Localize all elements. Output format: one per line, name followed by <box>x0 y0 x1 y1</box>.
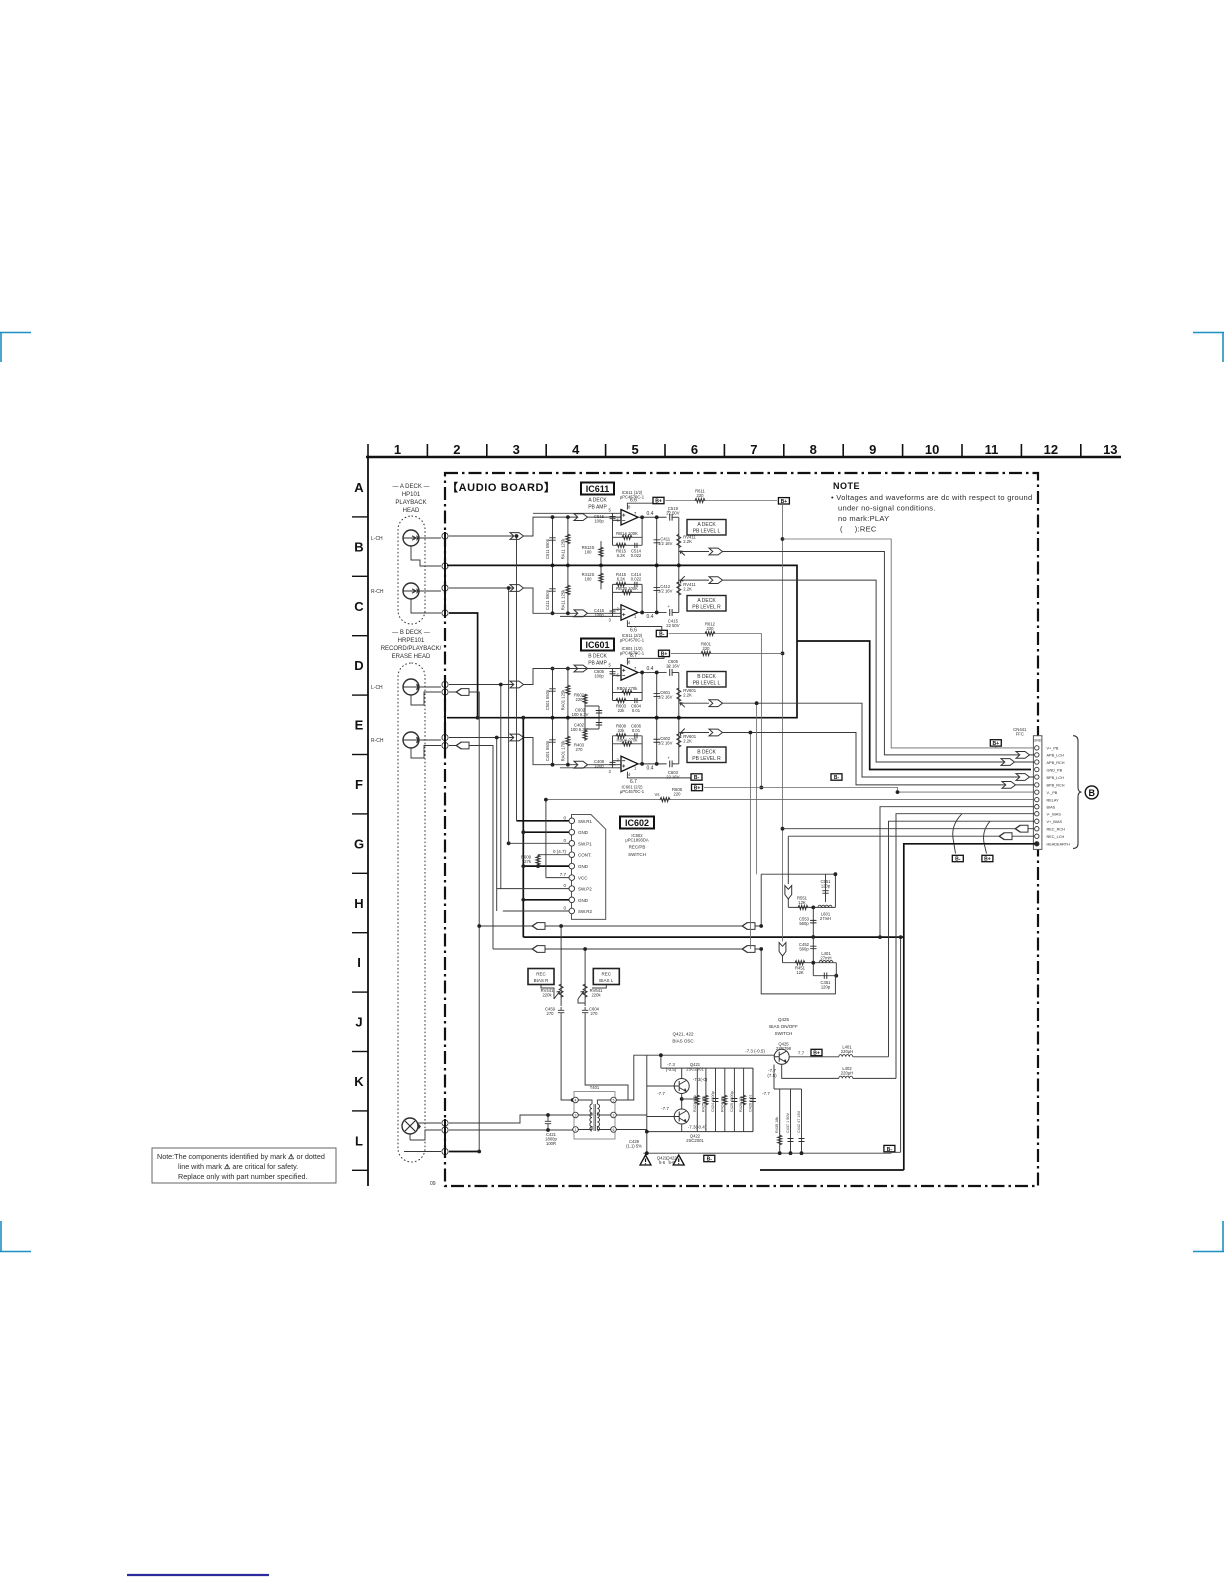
signal flag input L <box>510 533 524 540</box>
IC602 pin GND <box>569 897 575 903</box>
svg-text:Replace only with part number: Replace only with part number specified. <box>178 1172 307 1181</box>
svg-text:RB04 270k: RB04 270k <box>617 686 639 691</box>
wire erase line to T401 pin3 <box>449 1115 573 1123</box>
capacitor C415 across inputs <box>610 611 616 613</box>
wire Q425 collector to L402 <box>782 1065 896 1079</box>
svg-text:12K: 12K <box>798 900 806 905</box>
svg-text:22 16V: 22 16V <box>666 664 679 669</box>
svg-text:B: B <box>1088 788 1095 798</box>
wire B-deck ground bus <box>447 641 797 718</box>
svg-text:3: 3 <box>609 769 612 774</box>
B deck head dotted stadium <box>398 663 425 1162</box>
svg-text:GND: GND <box>578 864 589 869</box>
svg-text:270: 270 <box>576 747 584 752</box>
svg-text:PB AMP: PB AMP <box>588 661 607 667</box>
power box B- center <box>704 1155 715 1162</box>
svg-text:PB LEVEL L: PB LEVEL L <box>693 681 721 687</box>
svg-text:G: G <box>354 836 364 851</box>
IC602 pin SW.P2 <box>569 886 575 892</box>
svg-text:10: 10 <box>925 442 939 457</box>
capacitor C425 4800p <box>733 1068 735 1132</box>
svg-text:100p: 100p <box>594 612 604 617</box>
svg-text:R-CH: R-CH <box>371 589 384 595</box>
wire SW.P2 tap <box>500 685 502 889</box>
svg-text:SWITCH: SWITCH <box>628 852 646 857</box>
resistor R425 18k <box>705 1068 707 1132</box>
playback head L circle <box>403 530 419 546</box>
resistor R424 18k <box>724 1068 726 1132</box>
power box B+ osc <box>811 1049 822 1056</box>
svg-text:220μH: 220μH <box>841 1049 853 1054</box>
capacitor C605 coupling <box>670 669 672 676</box>
svg-text:RA01 125k: RA01 125k <box>560 689 565 711</box>
erase head circle with X <box>402 1118 421 1134</box>
T401 pin 5 <box>611 1097 617 1103</box>
svg-text:22k: 22k <box>618 728 626 733</box>
wire B+ jog to V+ riser <box>783 539 1035 748</box>
wire Q422 connections <box>647 1099 682 1132</box>
svg-text:GND: GND <box>578 830 589 835</box>
svg-text:PB LEVEL R: PB LEVEL R <box>692 605 721 611</box>
svg-text:(7.5): (7.5) <box>767 1073 777 1078</box>
svg-text:27mH: 27mH <box>820 956 831 961</box>
wire SW.R2 tap <box>496 738 498 912</box>
svg-text:μPC1893DA: μPC1893DA <box>625 838 649 843</box>
svg-text:220: 220 <box>674 792 682 797</box>
svg-text:5: 5 <box>613 1099 615 1103</box>
wire REC row L (y=926) <box>479 925 761 927</box>
wire LC2 frame <box>761 949 836 994</box>
circled B <box>1085 786 1098 799</box>
svg-text:C411 550p: C411 550p <box>545 589 550 610</box>
wire ground to connector GND_PB <box>797 641 1031 770</box>
svg-text:L-CH: L-CH <box>371 685 383 691</box>
resistor R612S 10K <box>600 541 602 565</box>
signal flag REC L row b <box>742 923 755 930</box>
svg-text:0: 0 <box>563 815 566 820</box>
svg-text:100p: 100p <box>594 518 604 523</box>
svg-text:REC/PB: REC/PB <box>629 845 646 850</box>
svg-text:3: 3 <box>575 1114 577 1118</box>
svg-text:B DECK: B DECK <box>697 674 716 680</box>
svg-text:— B DECK —: — B DECK — <box>392 630 430 636</box>
label box REC BIAS R <box>528 969 554 985</box>
svg-text:220: 220 <box>703 646 711 651</box>
connector pin GND_PB <box>1035 767 1039 771</box>
capacitor C411 550p <box>552 565 554 613</box>
resistor R612 220 <box>705 631 715 635</box>
wire LC2 inductor line <box>783 956 837 963</box>
svg-text:HP101: HP101 <box>402 492 421 498</box>
resistor RB1B 100K feedback <box>613 584 643 612</box>
svg-text:0: 0 <box>563 883 566 888</box>
IC601 label <box>581 639 614 651</box>
svg-text:4: 4 <box>628 772 631 777</box>
svg-text:9: 9 <box>869 442 876 457</box>
connector pin REC_RCH <box>1035 827 1039 831</box>
wire input L from pin 1 <box>449 517 621 536</box>
svg-text:B DECK: B DECK <box>697 750 716 756</box>
svg-text:PB LEVEL L: PB LEVEL L <box>693 529 721 535</box>
svg-text:220μH: 220μH <box>841 1071 853 1076</box>
svg-text:120p: 120p <box>821 985 831 990</box>
wire APB_RCH <box>723 580 1035 762</box>
wire T401 pin5 to osc rail <box>617 1055 647 1100</box>
signal flag REC R row a <box>532 946 545 953</box>
svg-text:BIAS: BIAS <box>1047 806 1056 810</box>
resistor R611 220 <box>695 498 705 502</box>
bottom blue rule <box>127 1574 269 1576</box>
svg-text:3: 3 <box>513 442 520 457</box>
svg-text:BIAS OSC: BIAS OSC <box>672 1039 694 1044</box>
power box <box>691 774 702 781</box>
resistor R615 / capacitor C514 series feedback <box>616 543 626 547</box>
signal flag <box>709 700 723 707</box>
svg-text:6.2K: 6.2K <box>617 576 626 581</box>
svg-text:1: 1 <box>634 765 637 770</box>
IC602 body <box>572 815 606 920</box>
svg-text:100: 100 <box>585 550 593 555</box>
wire osc left rail <box>646 1055 648 1153</box>
wire B- rail drop <box>669 634 762 788</box>
wire pin6 riser <box>449 692 479 1152</box>
svg-text:09: 09 <box>430 1181 436 1187</box>
brace <box>1073 736 1082 849</box>
op-amp IC611a <box>621 510 638 526</box>
flag down LC1 feed (REC_LCH) <box>785 886 792 900</box>
svg-text:1/2 16V: 1/2 16V <box>658 588 673 593</box>
svg-text:no mark:PLAY: no mark:PLAY <box>838 514 889 523</box>
capacitor C602 output to ground <box>656 718 658 764</box>
svg-text:BIAS L: BIAS L <box>599 978 614 983</box>
board edge pin circles <box>442 533 448 1155</box>
svg-text:RELAY: RELAY <box>1047 798 1060 802</box>
svg-text:7.7: 7.7 <box>798 1051 805 1056</box>
resistor R603 / capacitor C604 series feedback <box>616 698 626 702</box>
resistor R551 12k <box>798 905 808 909</box>
resistor R608 / capacitor C606 series feedback <box>616 734 626 738</box>
svg-text:IC601: IC601 <box>585 640 609 650</box>
svg-text:BPB_LCH: BPB_LCH <box>1047 776 1065 780</box>
wire Q425 emitter to L401 <box>789 1056 888 1058</box>
svg-text:GND: GND <box>578 898 589 903</box>
svg-text:C425 4800p: C425 4800p <box>730 1091 734 1112</box>
power box B- bottom right <box>884 1145 895 1152</box>
wire lower frame vertical <box>891 937 900 1152</box>
capacitor C412 output to ground <box>656 565 658 612</box>
resistor R435 18k <box>779 1089 781 1153</box>
capacitor C421 1800p <box>545 1118 551 1127</box>
svg-text:5: 5 <box>609 507 612 512</box>
T401 pin 2 <box>611 1112 617 1118</box>
resistor R601 220 <box>701 651 711 655</box>
wire SW.P1 tap <box>508 588 510 843</box>
wire power rail stub <box>627 620 661 633</box>
capacitor C605 across inputs <box>610 672 616 674</box>
power box B- flex <box>952 855 963 862</box>
svg-text:R425 18k: R425 18k <box>701 1096 705 1112</box>
svg-text:C442 47 16V: C442 47 16V <box>797 1110 801 1133</box>
svg-text:REC: REC <box>536 972 546 977</box>
capacitor C437 1 50V <box>790 1089 792 1153</box>
solid overlay on board edge between pins <box>444 532 446 1156</box>
corner mark top-right <box>1193 333 1224 363</box>
svg-text:8: 8 <box>628 504 631 509</box>
svg-text:3: 3 <box>609 617 612 622</box>
svg-text:220: 220 <box>576 697 584 702</box>
IC602 pin SW.P1 <box>569 841 575 847</box>
signal flag APB_RCH <box>1001 759 1015 766</box>
svg-text:RB1A 100K: RB1A 100K <box>616 531 638 536</box>
resistor R608 220 Vs <box>660 797 670 801</box>
svg-text:6: 6 <box>617 673 620 678</box>
signal flag input BR <box>510 734 524 741</box>
svg-text:7: 7 <box>750 442 757 457</box>
T401 pin 1 <box>573 1127 579 1133</box>
resistor R423 8.2k <box>696 1068 698 1132</box>
svg-text:RA11 125k: RA11 125k <box>560 589 565 610</box>
svg-text:7: 7 <box>634 511 637 516</box>
resistor R412S 10K <box>600 565 602 589</box>
power box B- on BPB_LCH <box>831 774 842 781</box>
svg-text:5: 5 <box>609 663 612 668</box>
capacitor C426 0.01 <box>752 1068 754 1132</box>
wire APB_LCH <box>723 552 1035 755</box>
svg-text:2.2K: 2.2K <box>683 738 692 743</box>
signal flag REC_LCH left <box>999 833 1012 840</box>
IC602 pin VCC <box>569 875 575 881</box>
wire osc inner rail top <box>661 1055 753 1068</box>
IC602 label box <box>620 817 654 829</box>
svg-text:Q421, 422: Q421, 422 <box>672 1032 694 1037</box>
svg-text:PB AMP: PB AMP <box>588 505 607 511</box>
IC611 label <box>581 483 614 495</box>
svg-text:100: 100 <box>585 577 593 582</box>
signal flag <box>709 729 723 736</box>
resistor R402 220 + capacitor C402 100 6.3V lower <box>585 718 599 741</box>
svg-text:6.2K: 6.2K <box>617 553 626 558</box>
svg-text:C426 0.01: C426 0.01 <box>748 1094 752 1112</box>
svg-text:A DECK: A DECK <box>697 598 716 604</box>
power box <box>659 650 670 657</box>
svg-text:560p: 560p <box>799 921 809 926</box>
resistor RB1A 100K feedback <box>613 517 643 545</box>
wire power rail stub <box>627 501 658 510</box>
wire power rail stub <box>627 653 664 664</box>
wire SW.R1 tap <box>516 536 518 821</box>
potentiometer RV601 <box>678 718 680 764</box>
potentiometer RV601 <box>678 672 680 717</box>
wire to level flag <box>679 551 709 553</box>
label box REC BIAS L <box>593 969 619 985</box>
wire T401 pin6 to rail <box>617 1129 647 1131</box>
svg-text:220k: 220k <box>591 993 601 998</box>
capacitor C603 coupling <box>670 760 672 767</box>
svg-text:6: 6 <box>617 517 620 522</box>
transistor Q421 <box>674 1079 689 1094</box>
connector pin APB_RCH <box>1035 760 1039 764</box>
connector pin BPB_RCH <box>1035 783 1039 787</box>
svg-text:R423 8.2k: R423 8.2k <box>693 1095 697 1112</box>
svg-text:CONT.: CONT. <box>578 853 592 858</box>
wire HEADEARTH heavy <box>760 844 1035 1170</box>
capacitor C411 output to ground <box>656 517 658 565</box>
svg-text:RA11 125k: RA11 125k <box>560 538 565 559</box>
svg-text:-7.7: -7.7 <box>762 1091 770 1096</box>
svg-text:SW.P2: SW.P2 <box>578 887 592 892</box>
svg-text:120p: 120p <box>821 884 831 889</box>
signal flag input R <box>510 585 524 592</box>
svg-text:C437 1 50V: C437 1 50V <box>786 1112 790 1133</box>
svg-text:560p: 560p <box>799 947 809 952</box>
svg-text:0.01: 0.01 <box>632 708 641 713</box>
svg-text:8: 8 <box>810 442 817 457</box>
potentiometer RV441 220k <box>560 926 562 1006</box>
svg-text:0.4: 0.4 <box>647 765 654 771</box>
A deck head dotted stadium <box>398 516 425 624</box>
wire REC_RCH <box>783 828 1035 830</box>
power box <box>656 630 667 637</box>
corner mark bottom-right <box>1193 1221 1224 1252</box>
svg-text:Q425: Q425 <box>778 1017 790 1022</box>
wire output 0.4 <box>638 671 667 673</box>
svg-text:REC_LCH: REC_LCH <box>1047 835 1065 839</box>
svg-text:2SC2001: 2SC2001 <box>686 1138 704 1143</box>
svg-text:0 (4.7): 0 (4.7) <box>553 849 567 854</box>
svg-text:• Voltages and waveforms are d: • Voltages and waveforms are dc with res… <box>831 493 1032 502</box>
playback head R circle <box>403 583 419 599</box>
resistor RA11 125k R-ch <box>567 565 569 613</box>
svg-text:R-CH: R-CH <box>371 738 384 744</box>
transistor Q425 <box>774 1049 789 1064</box>
svg-text:D: D <box>354 658 363 673</box>
wire A-deck ground bus <box>447 565 797 641</box>
connector pin V+_PB <box>1035 746 1039 750</box>
svg-text:RA01 170k: RA01 170k <box>560 740 565 762</box>
svg-text:220: 220 <box>697 493 705 498</box>
svg-text:12K: 12K <box>796 970 804 975</box>
svg-text:6: 6 <box>691 442 698 457</box>
capacitor C501 550p <box>552 669 554 718</box>
wire BPB-L to LC trap <box>756 703 758 874</box>
wire V+_BIAS with flex arc <box>984 821 990 853</box>
wire inputs IC611a <box>533 513 621 545</box>
svg-text:0.022: 0.022 <box>631 576 642 581</box>
svg-text:C: C <box>354 599 364 614</box>
svg-text:1: 1 <box>575 1128 577 1132</box>
svg-text:μPC4570C-1: μPC4570C-1 <box>620 638 645 643</box>
potentiometer RV411 <box>678 565 680 612</box>
wire inputs IC611b <box>560 584 621 616</box>
wire BPB-R to LC trap <box>749 733 751 950</box>
svg-text:GND: GND <box>1034 739 1042 743</box>
signal flag pin6 <box>456 689 469 696</box>
svg-text:8: 8 <box>628 660 631 665</box>
svg-text:4: 4 <box>575 1099 577 1103</box>
wire to level flag <box>679 702 709 704</box>
svg-text:R435 18k: R435 18k <box>775 1117 779 1133</box>
svg-text:2: 2 <box>613 1114 615 1118</box>
svg-text:SW.R1: SW.R1 <box>578 819 593 824</box>
connector pin APB_LCH <box>1035 753 1039 757</box>
svg-text:E: E <box>355 718 364 733</box>
svg-text:IC611: IC611 <box>586 484 610 494</box>
capacitor C451 120p <box>813 975 836 977</box>
signal flag APB_LCH <box>1016 752 1030 759</box>
svg-text:13: 13 <box>1103 442 1117 457</box>
wire BIAS riser <box>880 807 1034 937</box>
HEADEARTH junction dot <box>1035 842 1039 846</box>
svg-text:4: 4 <box>572 442 580 457</box>
svg-text:22 50V: 22 50V <box>666 511 679 516</box>
capacitor C401 550p <box>552 718 554 765</box>
wire osc top rail to Q425 <box>647 1054 774 1056</box>
svg-text:5-6: 5-6 <box>668 1160 675 1165</box>
svg-text:100 6.3V: 100 6.3V <box>572 712 589 717</box>
capacitor C415 coupling <box>670 609 672 616</box>
svg-text:-7.3 (-0.5): -7.3 (-0.5) <box>745 1049 765 1054</box>
rec/pb head L circle <box>403 679 419 695</box>
svg-text:100 6.3V: 100 6.3V <box>571 727 588 732</box>
svg-text:2.2K: 2.2K <box>683 539 692 544</box>
svg-text:+: + <box>667 604 670 609</box>
svg-text:6.7: 6.7 <box>630 653 637 659</box>
svg-text:27mH: 27mH <box>820 916 831 921</box>
capacitor C604 270 <box>582 1007 588 1016</box>
inductor L401 220uH <box>839 1055 853 1057</box>
svg-text:BIAS R: BIAS R <box>534 978 550 983</box>
svg-text:7: 7 <box>634 666 637 671</box>
potentiometer RV411 <box>678 517 680 565</box>
capacitor C452 560p <box>810 946 816 949</box>
inductor L401 27mH <box>819 961 833 963</box>
svg-text:RECORD/PLAYBACK/: RECORD/PLAYBACK/ <box>381 646 442 652</box>
capacitor C553 560p <box>812 907 814 937</box>
svg-text:+: + <box>667 755 670 760</box>
svg-text:1: 1 <box>394 442 401 457</box>
op-amp IC611b <box>621 605 638 621</box>
connector pin V-_PB <box>1035 790 1039 794</box>
resistor RA01 170k <box>567 718 569 765</box>
signal flag input L2 <box>574 514 588 521</box>
svg-text:VCC: VCC <box>578 876 588 881</box>
svg-text:270: 270 <box>591 1011 599 1016</box>
svg-text:220: 220 <box>707 626 715 631</box>
svg-text:REC: REC <box>602 972 612 977</box>
wire input R from pin 3 <box>449 588 621 616</box>
svg-text:7.7: 7.7 <box>560 872 567 877</box>
resistor R602 220 + capacitor C602 100 6.3V <box>585 694 599 718</box>
potentiometer RV641 220k <box>584 949 586 1006</box>
wire output 0.4 <box>638 516 667 518</box>
T401 pin 6 <box>611 1127 617 1133</box>
connector body <box>1033 736 1042 850</box>
label box A DECK PB LEVEL L <box>687 520 726 536</box>
svg-text:0: 0 <box>563 906 566 911</box>
corner mark top-left <box>0 333 31 363</box>
inductor L402 220uH <box>839 1076 853 1078</box>
label box B DECK PB LEVEL R <box>687 747 726 763</box>
signal flag BPB_LCH <box>1016 774 1030 781</box>
svg-text:0.01: 0.01 <box>632 728 641 733</box>
T401 pin 3 <box>573 1112 579 1118</box>
transistor Q422 <box>674 1109 689 1124</box>
svg-text:1/2 16V: 1/2 16V <box>658 740 673 745</box>
wire BPB_LCH <box>723 703 1035 777</box>
wire LC1 frame <box>761 874 835 926</box>
resistor R426 10k <box>743 1068 745 1132</box>
svg-text:A DECK: A DECK <box>697 522 716 528</box>
